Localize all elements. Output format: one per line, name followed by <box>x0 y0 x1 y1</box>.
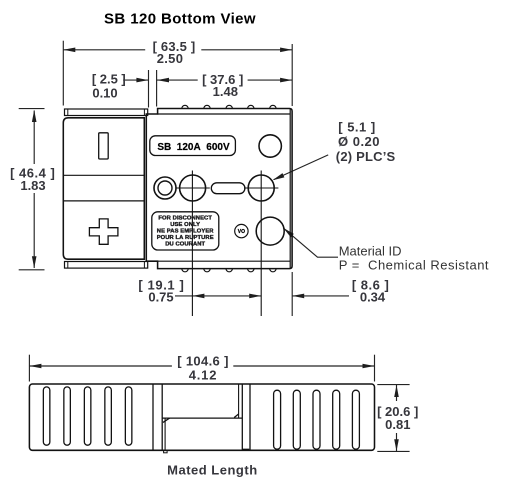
svg-text:Material ID: Material ID <box>339 243 402 258</box>
svg-text:1.83: 1.83 <box>20 178 45 193</box>
svg-text:NE PAS EMPLOYER: NE PAS EMPLOYER <box>157 229 215 235</box>
svg-text:Ø 0.20: Ø 0.20 <box>338 134 380 149</box>
svg-text:FOR DISCONNECT: FOR DISCONNECT <box>158 216 212 222</box>
svg-text:DU COURANT: DU COURANT <box>165 242 205 248</box>
svg-text:SB 120A 600V: SB 120A 600V <box>157 142 230 153</box>
svg-text:(2) PLC’S: (2) PLC’S <box>336 149 396 164</box>
svg-text:1.48: 1.48 <box>213 84 238 99</box>
svg-text:[ 2.5 ]: [ 2.5 ] <box>92 71 126 86</box>
svg-text:[ 5.1 ]: [ 5.1 ] <box>338 119 375 134</box>
svg-text:2.50: 2.50 <box>157 51 184 66</box>
svg-text:4.12: 4.12 <box>189 368 218 383</box>
svg-text:USE ONLY: USE ONLY <box>170 222 200 228</box>
svg-text:0.81: 0.81 <box>385 417 410 432</box>
svg-text:0.75: 0.75 <box>148 290 173 305</box>
svg-text:0.34: 0.34 <box>360 290 386 305</box>
svg-text:0.10: 0.10 <box>92 85 117 100</box>
svg-text:[ 104.6 ]: [ 104.6 ] <box>177 353 229 368</box>
svg-text:P = Chemical Resistant: P = Chemical Resistant <box>339 258 489 273</box>
svg-text:Mated Length: Mated Length <box>167 462 258 477</box>
svg-text:SB 120 Bottom View: SB 120 Bottom View <box>104 10 256 27</box>
svg-text:POUR LA RUPTURE: POUR LA RUPTURE <box>157 235 214 241</box>
svg-text:VO: VO <box>238 229 245 235</box>
